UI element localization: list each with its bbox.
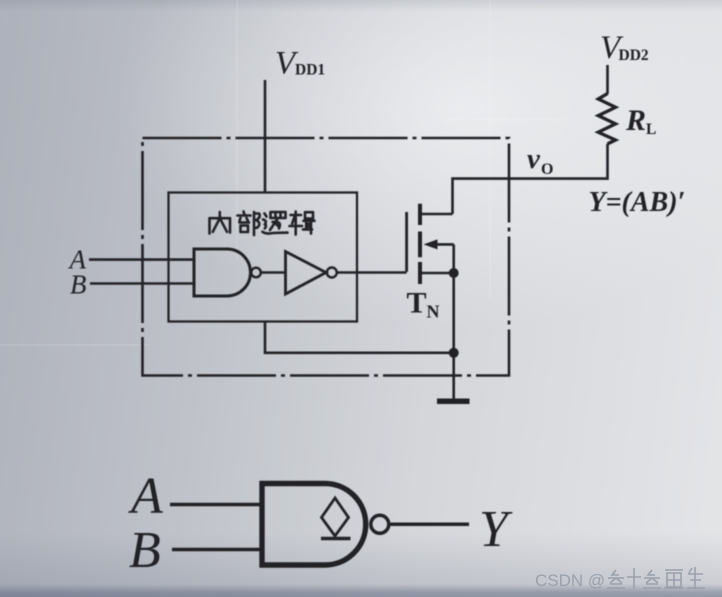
wire source to ground [452,273,455,399]
G2 output bubble [371,515,389,533]
svg-text:L: L [646,121,656,138]
svg-text:B: B [129,522,161,579]
wire G2 output Y [391,523,470,527]
transistor T_N channel bar [418,204,422,284]
wire A input to G2 [170,503,262,507]
transistor T_N source tap [420,272,454,275]
node A input wire [89,258,194,261]
wire substrate feedback from logic box [265,322,454,353]
svg-text:R: R [625,104,646,137]
node B input wire [90,282,194,285]
G2 diamond underline [321,537,351,540]
ground [437,399,470,405]
watermark CSDN @叁十叁画生 [535,571,605,590]
label T_N [407,287,440,322]
junction dot ground node [449,348,459,358]
svg-text:DD1: DD1 [295,62,325,79]
faint background streaks [236,0,238,260]
NAND gate G2 body (open-drain symbol) [262,484,366,566]
svg-text:DD2: DD2 [619,47,649,64]
inner logic box [169,193,358,322]
wire V_DD1 supply [264,80,267,193]
svg-text:T: T [407,287,427,320]
svg-text:N: N [427,302,440,322]
transistor T_N body arrow [436,243,454,246]
junction dot source node [449,268,459,278]
wire drain to output node [453,144,608,214]
svg-text:CSDN @: CSDN @ [535,571,605,590]
svg-text:v: v [527,143,541,175]
svg-text:O: O [541,161,553,178]
wire B input to G2 [172,548,262,552]
label v_O [527,143,553,178]
transistor T_N drain tap [420,213,453,216]
svg-text:Y: Y [479,501,513,558]
svg-text:A: A [128,468,163,525]
label R_L [625,104,656,138]
wire V_DD2 to resistor [606,65,609,94]
wire U1 to inverter [261,271,286,274]
wire inverter to transistor gate [337,271,407,274]
svg-text:Y=(AB)′: Y=(AB)′ [589,187,686,218]
svg-text:B: B [70,270,87,300]
U2 output bubble [327,268,337,278]
NAND gate U1 [194,249,251,296]
transistor T_N body vertical [452,244,455,273]
power V_DD1 label [275,46,325,82]
G2 open-drain diamond [322,498,349,536]
inverter U2 [286,252,327,295]
U1 output bubble [251,268,261,278]
outer dash-dot enclosure box [143,138,510,376]
label 内部逻辑 [210,212,315,236]
transistor T_N gate bar [405,212,408,272]
resistor R_L [598,94,615,144]
power V_DD2 label [600,30,649,66]
